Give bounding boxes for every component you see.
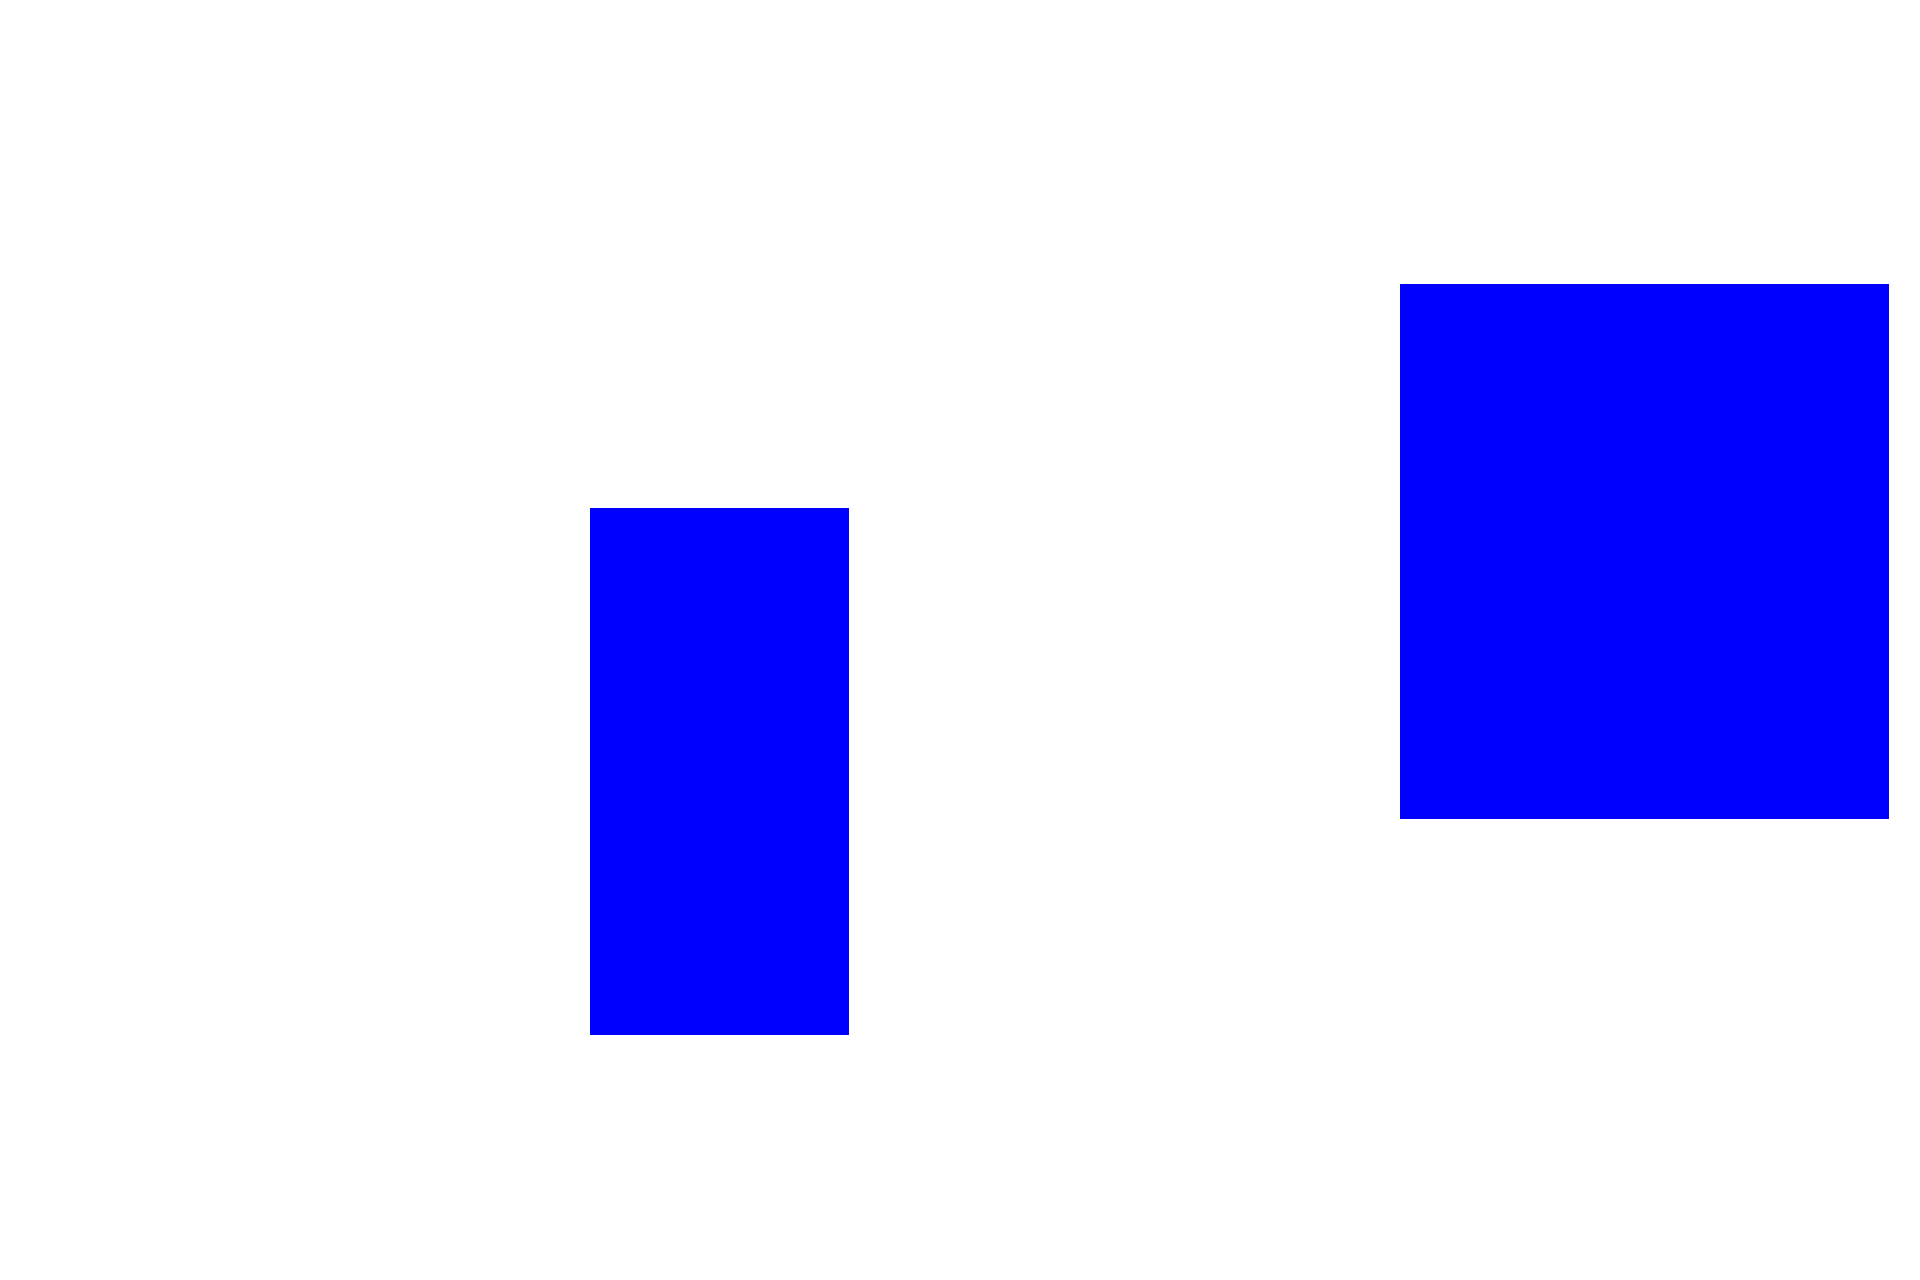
blue rectangle 1 (left, portrait) bbox=[590, 508, 849, 1035]
blue rectangle 2 (right, landscape) bbox=[1400, 284, 1889, 819]
